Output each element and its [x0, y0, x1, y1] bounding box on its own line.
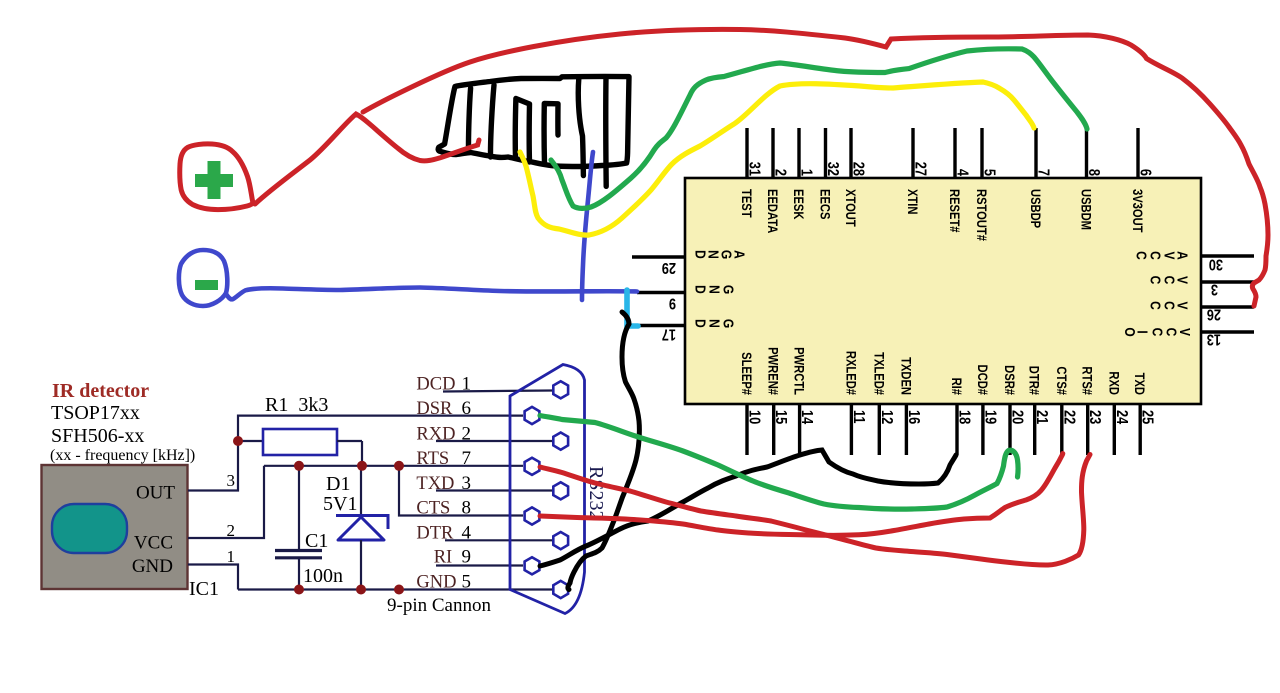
label DTR 4: [416, 523, 471, 544]
node label 3: [227, 471, 236, 490]
junction node R1/D1: [357, 461, 367, 471]
svg-text:C: C: [1133, 251, 1150, 260]
svg-text:16: 16: [904, 410, 922, 424]
pin 15 (PWREN#) bottom: [765, 347, 789, 455]
junction node C1 gnd: [294, 585, 304, 595]
svg-text:5: 5: [462, 572, 472, 593]
node label 1: [227, 547, 236, 566]
pin 23 (RTS#) bottom: [1079, 366, 1103, 455]
label RS232: [585, 466, 607, 520]
svg-text:9: 9: [669, 294, 676, 312]
pin 28 (XTOUT) top: [843, 128, 867, 227]
svg-text:6: 6: [1136, 169, 1154, 176]
svg-text:1: 1: [797, 169, 815, 176]
label CTS 8: [416, 498, 471, 519]
pin 16 (TXDEN) bottom: [898, 357, 922, 455]
label 9-pin Cannon: [387, 595, 491, 616]
pin 2 (EEDATA) top: [765, 128, 789, 233]
svg-text:RS232: RS232: [585, 466, 607, 520]
svg-text:O: O: [1122, 327, 1139, 336]
svg-text:TSOP17xx: TSOP17xx: [51, 402, 140, 424]
IR detector IC1 body: [42, 465, 188, 589]
pin 1 (EESK) top: [791, 128, 815, 220]
junction node RTS/CTS tie: [394, 461, 404, 471]
title: IR detector: [52, 380, 149, 402]
wire: RXD stub: [436, 440, 552, 442]
svg-text:32: 32: [824, 162, 842, 176]
svg-text:26: 26: [1207, 305, 1221, 323]
DB9 pin 1 (DCD): [553, 381, 568, 398]
junction node C1 top: [294, 461, 304, 471]
IC U1 (FT232-style USB UART, body): [685, 178, 1201, 404]
wire: DCD stub: [443, 391, 552, 392]
svg-text:D: D: [692, 285, 709, 294]
svg-text:DTR: DTR: [416, 524, 454, 544]
label DCD 1: [416, 374, 471, 395]
svg-text:R1 3k3: R1 3k3: [265, 394, 328, 416]
pin 21 (DTR#) bottom: [1026, 366, 1050, 455]
label RXD 2: [416, 424, 471, 445]
pin 20 (DSR#) bottom: [1002, 365, 1026, 455]
svg-text:PWREN#: PWREN#: [765, 347, 780, 395]
capacitor C1 100n: [275, 466, 322, 590]
svg-text:5V1: 5V1: [323, 493, 357, 515]
pin 27 (XTIN) top: [905, 128, 929, 214]
DB9 pin 6 (DSR): [525, 407, 540, 424]
label RTS 7: [416, 448, 471, 469]
svg-text:SFH506-xx: SFH506-xx: [51, 425, 144, 447]
svg-text:9-pin Cannon: 9-pin Cannon: [387, 595, 491, 616]
DB9 pin 2 (RXD): [553, 433, 568, 450]
pin 4 (RESET#) top: [947, 128, 971, 233]
svg-text:OUT: OUT: [136, 483, 175, 504]
svg-text:DCD: DCD: [416, 375, 455, 395]
svg-text:GND: GND: [132, 556, 173, 577]
wire: RI stub: [436, 564, 523, 566]
pin 10 (SLEEP#) bottom: [739, 352, 763, 455]
pin 13 (VCCIO) right: [1122, 327, 1254, 347]
pin 18 (RI#) bottom: [949, 378, 973, 455]
wire: red VBUS + to USB connector: [255, 114, 479, 204]
pin 3 (VCC) right: [1147, 276, 1254, 298]
svg-text:2: 2: [462, 424, 472, 445]
svg-text:14: 14: [798, 410, 816, 424]
svg-text:(xx - frequency [kHz]): (xx - frequency [kHz]): [50, 447, 195, 464]
svg-text:7: 7: [462, 448, 472, 469]
pin 30 (AVCC) right: [1133, 251, 1254, 273]
pin 32 (EECS) top: [817, 128, 841, 219]
svg-text:RTS#: RTS#: [1079, 366, 1094, 395]
resistor R1 3k3: [238, 429, 362, 466]
pin 5 (RSTOUT#) top: [974, 128, 998, 241]
value 100n: [303, 565, 343, 587]
pin 22 (CTS#) bottom: [1053, 366, 1077, 455]
wire: green DSR DB9 pin6 to chip pin 20: [540, 416, 1018, 510]
svg-text:18: 18: [955, 410, 973, 424]
wire: black RI DB9 pin9 to chip pin 18: [540, 450, 956, 566]
wire: TXD stub: [436, 489, 552, 491]
junction node D1 gnd: [356, 585, 366, 595]
svg-text:C1: C1: [305, 530, 328, 552]
junction node gnd row: [394, 585, 404, 595]
svg-text:20: 20: [1008, 410, 1026, 424]
label DSR 6: [416, 398, 471, 419]
svg-text:8: 8: [1085, 169, 1103, 176]
DB9 pin 3 (TXD): [553, 482, 568, 499]
DB9 pin 4 (DTR): [553, 532, 568, 549]
svg-text:TXDEN: TXDEN: [898, 357, 913, 395]
svg-text:SLEEP#: SLEEP#: [739, 352, 754, 395]
svg-text:2: 2: [771, 169, 789, 176]
wire: blue GND from USB shell down: [582, 152, 593, 300]
svg-text:1: 1: [462, 374, 472, 395]
wire: blue GND (- terminal to chip pin 9): [226, 288, 637, 300]
power + terminal (red blob with green plus): [180, 144, 253, 210]
junction node OUT/R1/DSR: [233, 436, 243, 446]
svg-text:EESK: EESK: [791, 189, 806, 220]
svg-text:27: 27: [911, 162, 929, 176]
svg-text:EECS: EECS: [817, 189, 832, 219]
wire: GND pin 1 stub down to GND row: [188, 565, 238, 590]
svg-text:22: 22: [1060, 410, 1078, 424]
USB connector (hand sketch): [438, 76, 629, 186]
wire: DTR stub: [445, 539, 552, 541]
svg-text:CTS#: CTS#: [1053, 366, 1068, 395]
svg-text:31: 31: [745, 162, 763, 176]
svg-text:7: 7: [1034, 169, 1052, 176]
svg-text:30: 30: [1209, 255, 1223, 273]
part name SFH506-xx: [51, 425, 144, 447]
value label R1 3k3: [265, 394, 328, 416]
svg-text:DSR: DSR: [416, 399, 453, 419]
pin 14 (PWRCTL) bottom: [791, 347, 815, 455]
pin 11 (RXLED#) bottom: [843, 351, 867, 455]
pin 25 (TXD) bottom: [1132, 373, 1156, 455]
wire: cyan jumper pin9-pin17: [627, 290, 638, 326]
pin 6 (3V3OUT) top: [1130, 128, 1154, 233]
node label 2: [227, 521, 236, 540]
pin 17 (GND) left: [637, 319, 737, 343]
pin 12 (TXLED#) bottom: [871, 352, 895, 455]
pin 8 (USBDM) top: [1078, 128, 1102, 230]
svg-text:VCC: VCC: [134, 533, 173, 554]
svg-text:17: 17: [662, 325, 676, 343]
label D1: [326, 473, 350, 495]
svg-text:D1: D1: [326, 473, 350, 495]
svg-text:6: 6: [462, 398, 472, 419]
svg-text:RI#: RI#: [949, 378, 964, 395]
svg-text:3V3OUT: 3V3OUT: [1130, 189, 1145, 233]
note (xx - frequency [kHz]): [50, 447, 195, 464]
svg-text:15: 15: [772, 410, 790, 424]
wire: node OUT up to DSR row: [238, 416, 523, 441]
svg-text:28: 28: [849, 162, 867, 176]
wire: yellow USBDP (USB to pin 7): [520, 82, 1034, 235]
zener diode D1 5V1: [336, 466, 388, 590]
svg-text:21: 21: [1033, 410, 1051, 424]
svg-text:IR detector: IR detector: [52, 380, 149, 402]
DB9 pin 9 (RI): [525, 557, 540, 574]
svg-text:100n: 100n: [303, 565, 343, 587]
svg-text:DTR#: DTR#: [1026, 366, 1041, 395]
wire: black GND chip pin17 to DB9 pin5: [568, 312, 639, 590]
svg-text:RSTOUT#: RSTOUT#: [974, 189, 989, 241]
svg-text:8: 8: [462, 498, 472, 519]
svg-text:9: 9: [462, 547, 472, 568]
label TXD 3: [416, 473, 471, 494]
svg-text:TXLED#: TXLED#: [871, 352, 886, 395]
pin 29 (AGND) left: [632, 250, 748, 276]
wire: GND row to DB9 pin5: [238, 588, 552, 590]
value 5V1: [323, 493, 357, 515]
wire: VCC pin 2 stub up to RTS row: [188, 466, 264, 538]
svg-text:USBDM: USBDM: [1078, 189, 1093, 230]
svg-text:CTS: CTS: [416, 499, 450, 519]
svg-text:3: 3: [227, 471, 236, 490]
svg-text:RXD: RXD: [1106, 371, 1121, 395]
svg-text:4: 4: [953, 169, 971, 176]
svg-text:TXD: TXD: [416, 474, 454, 494]
pin 9 (GND) left: [637, 285, 737, 312]
svg-text:23: 23: [1086, 410, 1104, 424]
reference IC1: [189, 578, 219, 600]
svg-text:19: 19: [981, 410, 999, 424]
svg-text:PWRCTL: PWRCTL: [791, 347, 806, 395]
power - terminal (blue blob with green minus): [179, 250, 227, 306]
svg-text:TXD: TXD: [1132, 373, 1147, 395]
pin 24 (RXD) bottom: [1106, 371, 1130, 455]
svg-text:3: 3: [462, 473, 472, 494]
pin 31 (TEST) top: [739, 128, 763, 218]
svg-text:XTOUT: XTOUT: [843, 189, 858, 227]
svg-text:EEDATA: EEDATA: [765, 189, 780, 233]
wire: RTS row: [264, 465, 523, 467]
wire: RTS-CTS tie: [399, 466, 523, 516]
svg-text:2: 2: [227, 521, 236, 540]
svg-text:5: 5: [980, 169, 998, 176]
svg-text:12: 12: [877, 410, 895, 424]
wire: red VCC arc (+ to AVCC/VCC pins): [363, 29, 1268, 306]
wire: green USBDM (USB to pin 8): [551, 49, 1087, 209]
label GND 5: [416, 572, 471, 593]
DB9 pin 8 (CTS): [525, 507, 540, 524]
label RI 9: [434, 547, 471, 568]
label C1: [305, 530, 328, 552]
svg-text:TEST: TEST: [739, 189, 754, 218]
DB9 pin 5 (GND): [553, 581, 568, 598]
svg-text:29: 29: [662, 259, 676, 277]
pin 19 (DCD#) bottom: [975, 365, 999, 455]
svg-text:3: 3: [1211, 280, 1218, 298]
svg-text:GND: GND: [416, 573, 456, 593]
svg-text:D: D: [692, 250, 709, 259]
svg-text:RESET#: RESET#: [947, 189, 962, 233]
svg-text:DCD#: DCD#: [975, 365, 990, 395]
IR detector lens: [52, 504, 127, 553]
svg-text:D: D: [692, 319, 709, 328]
svg-text:RXD: RXD: [416, 425, 455, 445]
svg-text:24: 24: [1112, 410, 1130, 424]
svg-text:RXLED#: RXLED#: [843, 351, 858, 395]
wire: red CTS DB9 pin8 to chip pin 22: [540, 454, 1063, 536]
svg-text:13: 13: [1207, 330, 1221, 348]
svg-text:4: 4: [462, 523, 472, 544]
pin 7 (USBDP) top: [1028, 128, 1052, 229]
svg-text:10: 10: [745, 410, 763, 424]
svg-text:RI: RI: [434, 548, 453, 568]
pin 26 (VCC) right: [1147, 301, 1254, 323]
svg-text:1: 1: [227, 547, 236, 566]
svg-text:C: C: [1147, 276, 1164, 285]
svg-text:XTIN: XTIN: [905, 189, 920, 214]
svg-text:RTS: RTS: [416, 449, 449, 469]
svg-text:C: C: [1147, 301, 1164, 310]
DB9 pin 7 (RTS): [525, 458, 540, 475]
svg-text:25: 25: [1138, 410, 1156, 424]
DB9 connector outline (9-pin Cannon): [510, 365, 585, 614]
svg-text:DSR#: DSR#: [1002, 365, 1017, 395]
svg-text:11: 11: [849, 410, 867, 424]
svg-text:IC1: IC1: [189, 578, 219, 600]
wire: red RTS DB9 pin7 to chip pin 23: [540, 455, 1090, 566]
part name TSOP17xx: [51, 402, 140, 424]
svg-text:USBDP: USBDP: [1028, 189, 1043, 229]
wire: OUT pin 3 stub: [188, 441, 238, 491]
